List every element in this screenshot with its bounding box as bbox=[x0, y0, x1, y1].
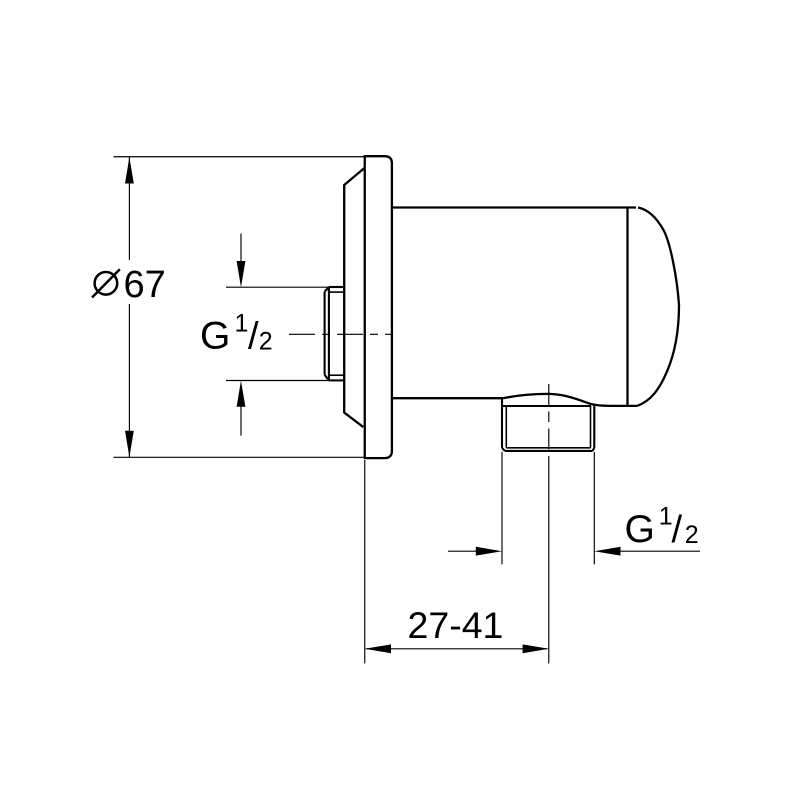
svg-text:1: 1 bbox=[235, 309, 249, 337]
root end bbox=[506, 447, 590, 449]
dim 27-41 line bbox=[366, 648, 548, 650]
inlet dim arrow down head bbox=[237, 261, 246, 287]
outlet dim arrow left head bbox=[594, 547, 620, 556]
boss top bbox=[502, 405, 591, 407]
inlet thread dim extension bottom bbox=[226, 380, 329, 382]
chamfer bottom bbox=[325, 375, 329, 381]
dim 27-41 arrow right bbox=[523, 644, 549, 653]
root left bbox=[505, 406, 507, 448]
end face bbox=[505, 450, 593, 452]
thread crest bottom bbox=[329, 379, 344, 381]
chamfer boundary bbox=[328, 287, 330, 380]
flange cone (bell behind plate) bbox=[344, 168, 365, 427]
chamfer right bbox=[593, 448, 595, 451]
dim 27-41 arrow left bbox=[365, 644, 391, 653]
outlet dim arrow right shaft bbox=[448, 550, 478, 552]
end face bbox=[324, 292, 326, 375]
dim Ø67 bottom extension line bbox=[113, 456, 364, 458]
thread crest top bbox=[329, 286, 344, 288]
outlet dim arrow right head bbox=[476, 547, 502, 556]
svg-text:G: G bbox=[200, 315, 230, 358]
inlet dim arrow up shaft bbox=[240, 405, 242, 436]
outlet centerline extension bbox=[548, 466, 550, 663]
body top line bbox=[392, 206, 636, 208]
crest right bbox=[593, 406, 595, 448]
label Ø symbol slash bbox=[92, 269, 120, 297]
dim Ø67 arrow up bbox=[125, 157, 134, 183]
inlet thread dim extension top bbox=[226, 286, 329, 288]
svg-text:/: / bbox=[248, 315, 259, 357]
inlet thread stub G1/2 (left) bbox=[325, 287, 345, 380]
outlet thread dim extension left bbox=[501, 452, 503, 564]
dim Ø67 line upper segment bbox=[128, 157, 130, 260]
body bottom line bbox=[392, 397, 503, 399]
crest left bbox=[501, 398, 503, 448]
root right bbox=[590, 406, 592, 448]
outlet thread stub G1/2 (bottom) bbox=[502, 398, 594, 451]
inlet dim arrow up head bbox=[237, 381, 246, 407]
outlet thread dim extension right bbox=[593, 452, 595, 564]
dim Ø67 arrow down bbox=[125, 431, 134, 457]
outlet centerline bbox=[548, 384, 550, 466]
dim Ø67 top extension line bbox=[113, 156, 364, 158]
cap joint line bbox=[626, 208, 628, 406]
svg-text:67: 67 bbox=[124, 264, 166, 306]
dim Ø67 line lower segment bbox=[128, 304, 130, 457]
thread root top bbox=[329, 291, 344, 293]
label Ø symbol circle bbox=[95, 272, 118, 295]
chamfer left bbox=[502, 448, 505, 451]
dim 27-41 extension left bbox=[364, 460, 366, 663]
chamfer top bbox=[325, 287, 329, 292]
wall plate (escutcheon, side view) bbox=[365, 156, 392, 458]
svg-text:/: / bbox=[672, 509, 683, 551]
dome cap bbox=[637, 208, 679, 406]
inlet dim arrow down shaft bbox=[240, 234, 242, 264]
thread root bottom bbox=[329, 374, 344, 376]
outlet dim arrow left shaft bbox=[619, 550, 701, 552]
svg-text:2: 2 bbox=[259, 327, 273, 355]
inlet centerline bbox=[289, 333, 393, 335]
svg-text:G: G bbox=[625, 508, 655, 551]
body-outlet fillet contour bbox=[503, 394, 637, 406]
svg-text:2: 2 bbox=[685, 521, 699, 549]
svg-text:27-41: 27-41 bbox=[408, 604, 504, 646]
